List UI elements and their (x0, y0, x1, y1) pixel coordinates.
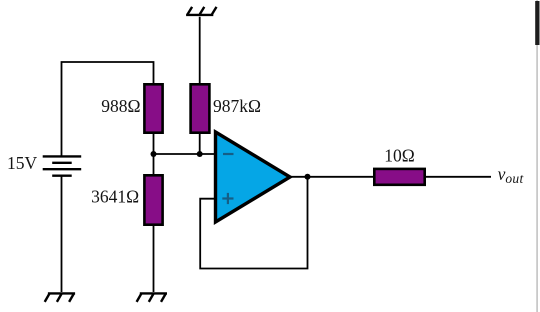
ground (below R3) (137, 293, 167, 302)
scrollbar track (536, 0, 538, 312)
wire top-ground to R2 (199, 17, 201, 85)
svg-text:10Ω: 10Ω (384, 145, 415, 165)
svg-text:15V: 15V (7, 153, 38, 173)
scrollbar thumb (535, 1, 539, 45)
resistor R2 987k (191, 84, 210, 132)
op-amp plus sign (222, 193, 233, 204)
wire R1 bottom through node A to R3 top (153, 133, 155, 175)
op-amp minus sign (223, 153, 234, 155)
resistor R1 988 (144, 84, 162, 132)
svg-text:988Ω: 988Ω (101, 96, 140, 116)
wire node A to op-amp minus input (154, 153, 217, 155)
svg-text:987kΩ: 987kΩ (213, 96, 261, 116)
resistor R3 3641 (144, 175, 162, 224)
wire R2 bottom to node B (199, 133, 201, 154)
node A junction dot (151, 151, 157, 157)
op-amp U1 (216, 132, 291, 222)
svg-text:3641Ω: 3641Ω (91, 186, 139, 206)
wire op-amp output to R4 (289, 176, 374, 178)
output node junction dot (305, 174, 311, 180)
resistor R4 10 ohm (374, 169, 424, 185)
node B junction dot (197, 151, 203, 157)
ground (top, rotated) (186, 7, 216, 15)
wire battery top to R1 top (L-shape) (62, 62, 154, 156)
battery V1 15V (43, 156, 81, 175)
ground (below battery) (45, 293, 75, 302)
wire R4 to output terminal (426, 176, 491, 178)
wire battery bottom to ground (61, 176, 63, 292)
feedback wire: plus input, down, right, up to output node (200, 177, 307, 269)
wire R3 bottom to ground (153, 225, 155, 292)
